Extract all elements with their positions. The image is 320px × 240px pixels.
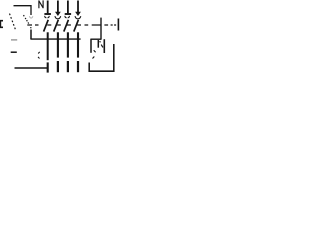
switch S0 pivot node [30, 27, 32, 28]
mechanism dashed hook marks at pole N [38, 52, 40, 59]
pole N terminal bar [44, 13, 51, 15]
handle bracket H1 [0, 21, 3, 28]
pole L1 bottom lead [57, 32, 59, 57]
pole L1 blade [54, 20, 59, 32]
pole L1 top lead [57, 1, 59, 13]
wire right return loop [89, 44, 114, 71]
pole N blade [44, 20, 49, 32]
pole L2 terminal stub [67, 61, 69, 72]
pole N bottom lead [47, 32, 49, 60]
aux dashed link mark B [93, 57, 95, 59]
wire bottom bus [15, 67, 48, 69]
aux contact top jog wire [90, 38, 101, 40]
pole L3 arrow head [75, 12, 81, 16]
pole N contact jaw [45, 16, 50, 18]
aux contact left lead [90, 39, 92, 53]
pole L2 terminal bar [65, 13, 71, 15]
mechanism end bar [117, 19, 119, 31]
pole L3 contact jaw [75, 16, 81, 19]
aux contact dashed blade [100, 41, 103, 47]
pole L2 bottom lead [67, 32, 69, 57]
pole L3 top lead [77, 1, 79, 13]
mechanism dashed linkage line [27, 24, 116, 26]
dash gray mark [11, 39, 17, 41]
pole L1 arrow head [55, 12, 61, 16]
pole L3 terminal stub [77, 61, 79, 72]
pole L3 bottom lead [77, 32, 79, 57]
wire secondary bus [30, 38, 80, 40]
pole L2 contact jaw [65, 16, 70, 18]
pole L2 blade [64, 20, 69, 32]
dashed linkage to handle [10, 14, 16, 30]
pole L1 terminal stub [57, 61, 59, 72]
pole L1 contact jaw [55, 16, 61, 19]
switch S0 dashed blade [24, 15, 29, 24]
pole N top lead [47, 1, 49, 14]
switch S0 contact jaw faint [29, 16, 33, 18]
label N [39, 0, 43, 8]
aux contact fixed lead A [97, 40, 99, 48]
dash black mark [11, 51, 17, 53]
pole N terminal stub [47, 62, 49, 72]
pole L3 blade [74, 20, 79, 32]
aux contact fixed lead B [103, 39, 105, 53]
wire top feed bus [14, 6, 32, 15]
pole L2 top lead [67, 1, 69, 14]
wire S0 lead down [30, 30, 32, 40]
aux dashed link mark A [94, 50, 96, 52]
aux contact top wire [100, 18, 102, 40]
